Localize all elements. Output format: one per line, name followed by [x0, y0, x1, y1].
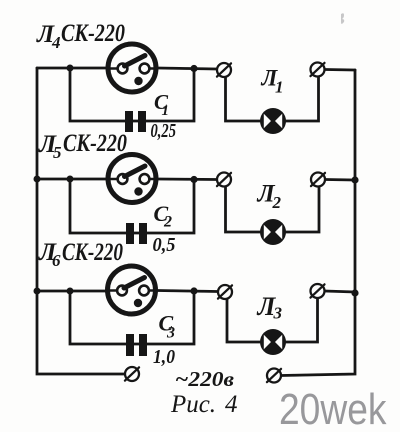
- svg-text:6: 6: [52, 251, 61, 270]
- svg-text:1: 1: [162, 103, 170, 119]
- svg-text:СК-220: СК-220: [61, 20, 125, 47]
- svg-text:4: 4: [225, 391, 238, 418]
- svg-text:2: 2: [163, 214, 172, 231]
- svg-text:СК-220: СК-220: [62, 239, 123, 266]
- svg-text:20wek: 20wek: [279, 386, 387, 432]
- svg-text:2: 2: [272, 193, 282, 212]
- svg-text:0,25: 0,25: [151, 120, 177, 142]
- svg-text:Рис.: Рис.: [170, 391, 216, 418]
- svg-text:3: 3: [273, 304, 283, 323]
- svg-text:4: 4: [51, 33, 61, 52]
- svg-text:3: 3: [166, 325, 175, 342]
- svg-text:0,5: 0,5: [153, 234, 176, 256]
- svg-text:СК-220: СК-220: [63, 130, 127, 157]
- svg-text:1,0: 1,0: [153, 346, 175, 368]
- svg-text:5: 5: [53, 143, 62, 162]
- svg-text:1: 1: [275, 78, 284, 97]
- svg-text:~220в: ~220в: [175, 367, 235, 391]
